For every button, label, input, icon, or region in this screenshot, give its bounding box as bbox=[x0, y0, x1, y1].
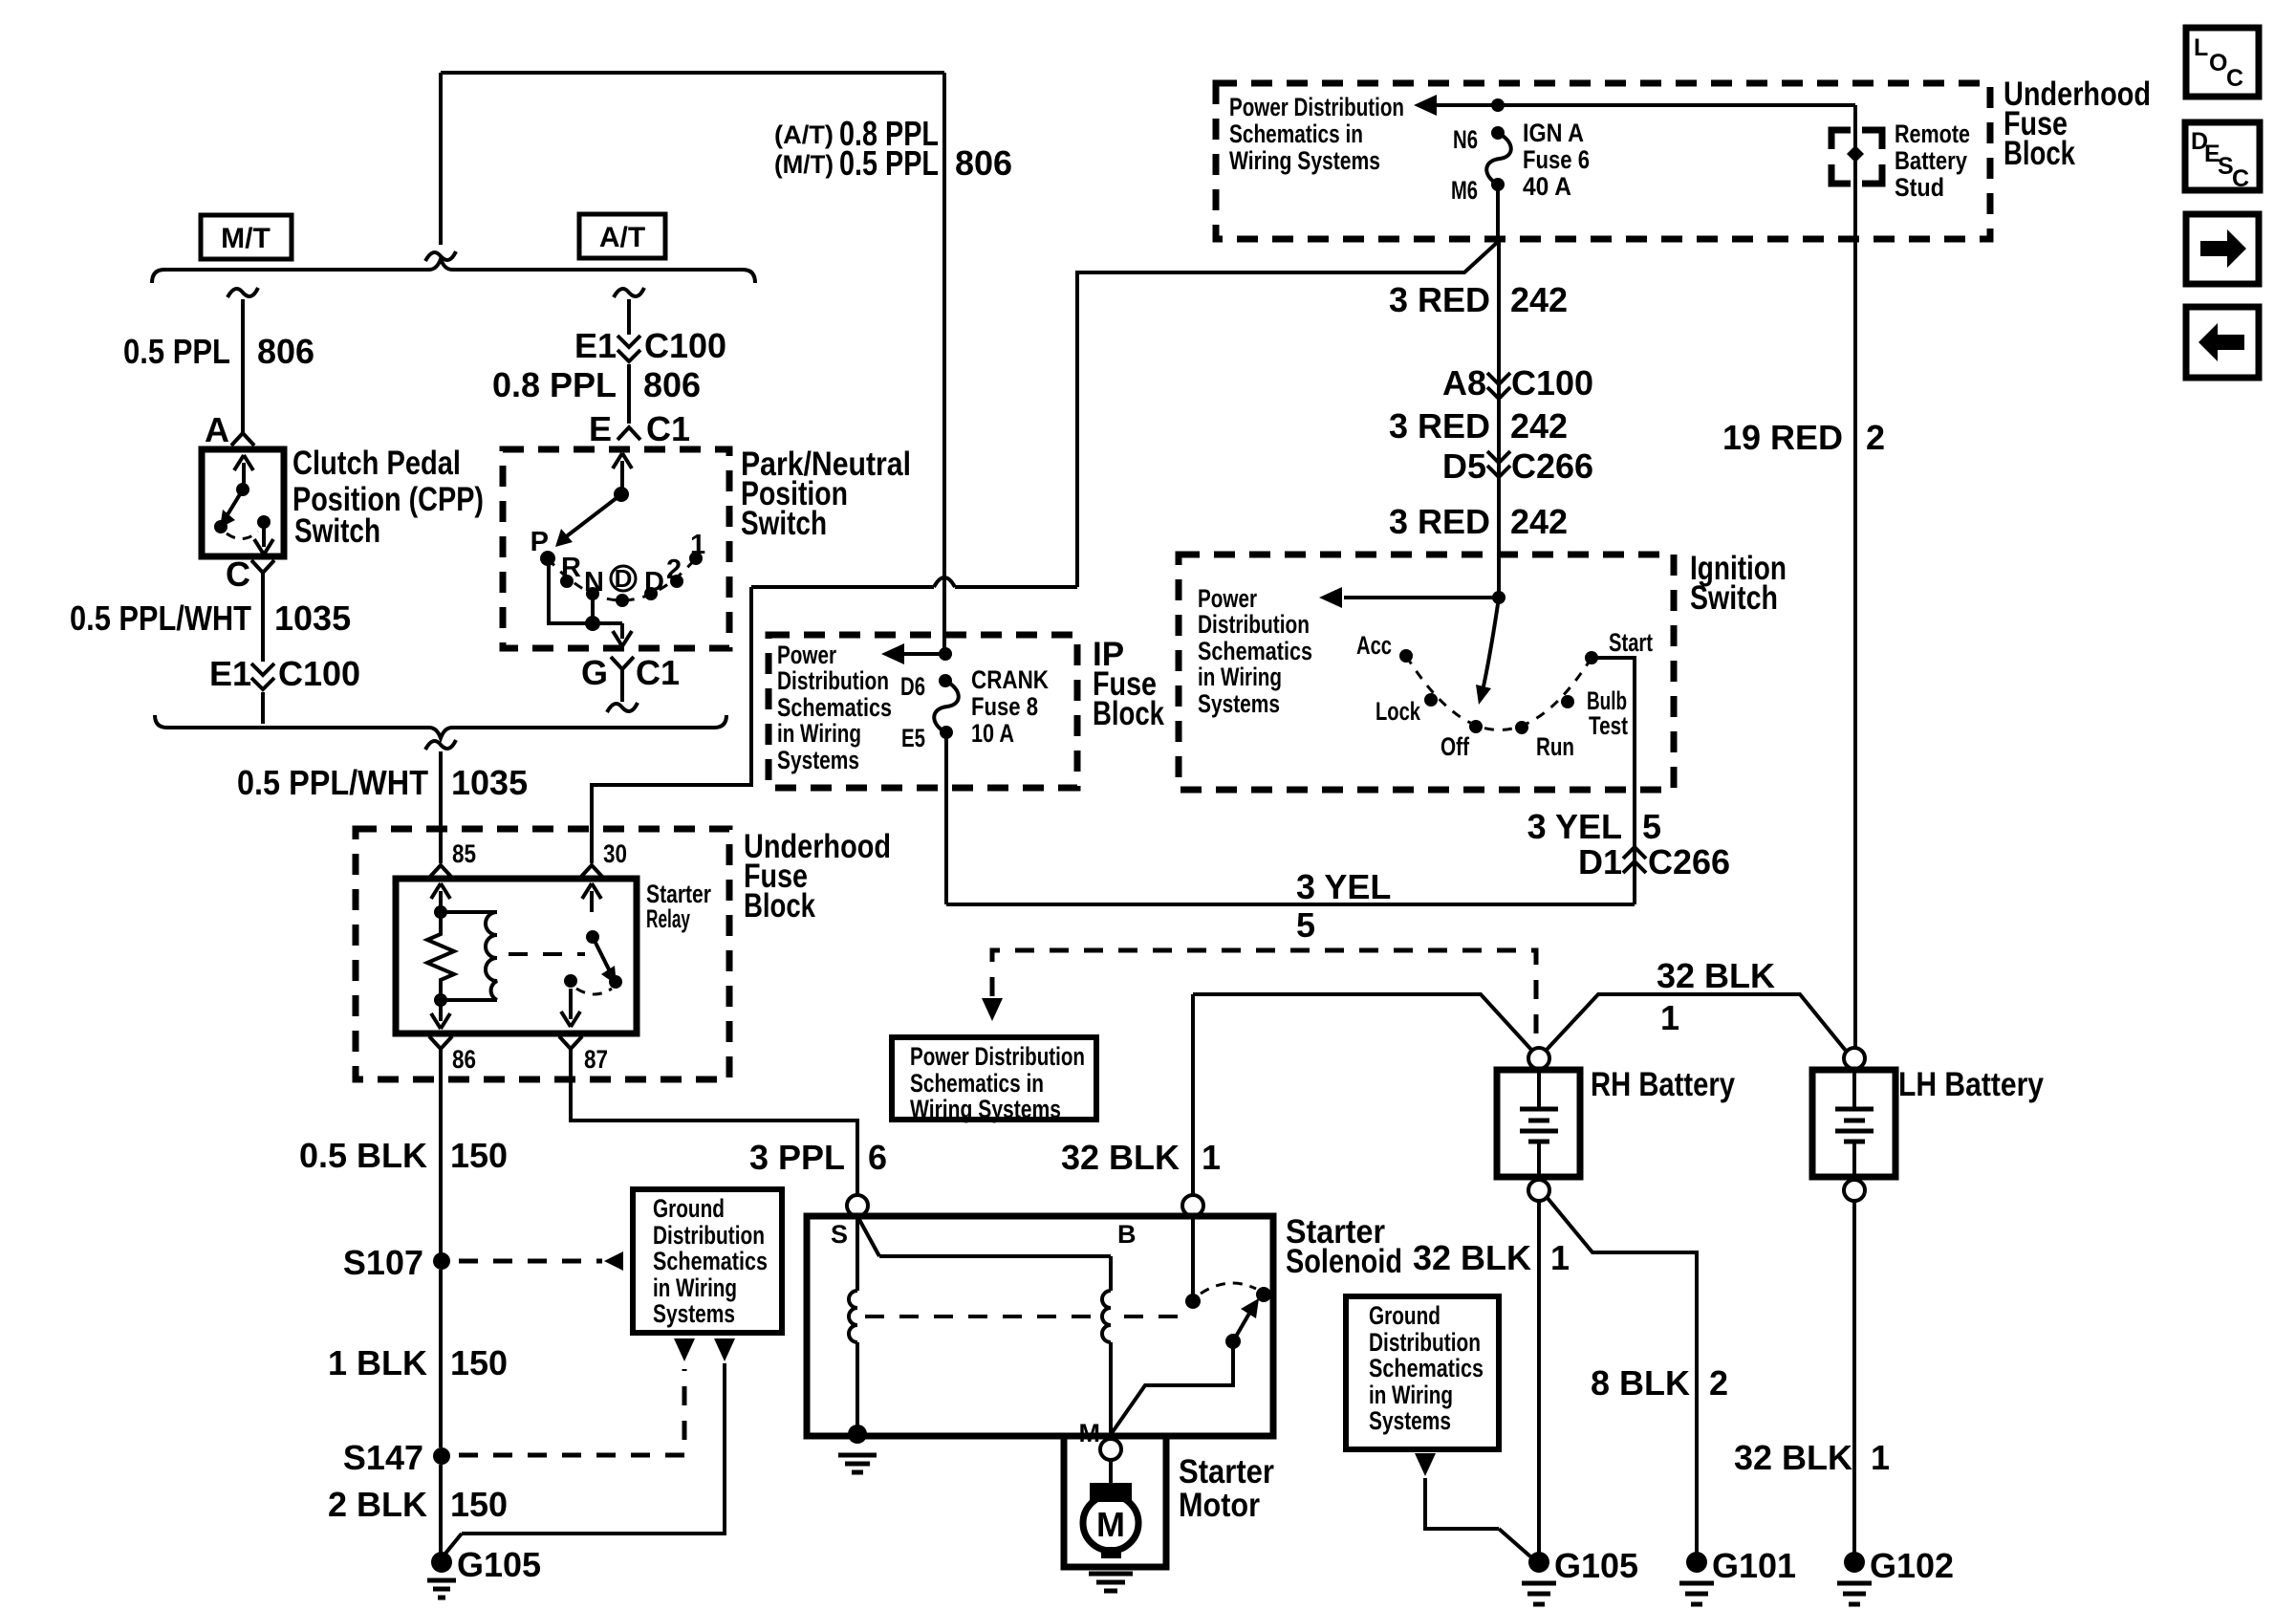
wire hop over 806 bbox=[934, 577, 955, 587]
PNP input arrow up bbox=[620, 461, 624, 488]
svg-text:1: 1 bbox=[1871, 1438, 1890, 1477]
LH battery - terminal bbox=[1844, 1180, 1865, 1201]
svg-text:3 RED: 3 RED bbox=[1389, 280, 1490, 319]
svg-text:Clutch Pedal: Clutch Pedal bbox=[292, 445, 461, 482]
LH battery symbol bbox=[1852, 1070, 1856, 1109]
svg-text:Battery: Battery bbox=[1895, 146, 1967, 175]
svg-text:806: 806 bbox=[955, 143, 1012, 183]
svg-text:242: 242 bbox=[1510, 280, 1568, 319]
svg-text:N: N bbox=[584, 567, 604, 598]
PNP positions arc bbox=[548, 558, 696, 600]
CPP switch travel arc bbox=[227, 532, 258, 539]
IP ref arrow left bbox=[899, 652, 945, 656]
svg-text:LH Battery: LH Battery bbox=[1898, 1066, 2044, 1103]
motor ground symbol bbox=[1089, 1572, 1133, 1577]
wire 3 RED to ignition bbox=[1497, 241, 1501, 598]
position dot Run bbox=[1515, 721, 1528, 734]
RH battery - terminal bbox=[1528, 1180, 1549, 1201]
svg-text:Ground: Ground bbox=[653, 1194, 725, 1223]
splice S107 bbox=[433, 1252, 450, 1270]
svg-text:C100: C100 bbox=[1511, 363, 1593, 402]
relay actuate dashed link bbox=[509, 952, 585, 956]
gdb2 wire to G105 bbox=[1425, 1478, 1499, 1529]
pin A connector bbox=[231, 433, 254, 446]
svg-text:in Wiring: in Wiring bbox=[653, 1273, 737, 1302]
svg-text:150: 150 bbox=[450, 1485, 508, 1524]
svg-text:G102: G102 bbox=[1870, 1546, 1954, 1585]
svg-text:0.5 PPL/WHT: 0.5 PPL/WHT bbox=[70, 598, 251, 638]
svg-text:in Wiring: in Wiring bbox=[1369, 1381, 1453, 1409]
PNP position dot N bbox=[586, 587, 599, 600]
CPP switch arm arrow bbox=[224, 490, 243, 521]
solenoid actuate dashed link bbox=[865, 1315, 1097, 1318]
solenoid contact dot right bbox=[1256, 1287, 1271, 1302]
RH battery + terminal bbox=[1528, 1048, 1549, 1069]
svg-text:Start: Start bbox=[1609, 628, 1653, 657]
PNP position dot P bbox=[540, 551, 555, 566]
solenoid B drop bbox=[1191, 1216, 1195, 1295]
underhood fuse block 1 box bbox=[1216, 83, 1990, 239]
relay coil bbox=[486, 912, 497, 1000]
svg-text:150: 150 bbox=[450, 1343, 508, 1382]
dashed ref wire S147 bbox=[459, 1369, 684, 1455]
svg-text:Lock: Lock bbox=[1375, 697, 1421, 726]
svg-text:Power: Power bbox=[1198, 584, 1257, 613]
svg-text:Run: Run bbox=[1536, 732, 1574, 761]
svg-text:87: 87 bbox=[584, 1045, 608, 1074]
svg-text:6: 6 bbox=[868, 1138, 887, 1177]
PNP selector arm bbox=[564, 494, 621, 538]
svg-text:Power Distribution: Power Distribution bbox=[910, 1042, 1085, 1071]
PNP wire N drop bbox=[591, 599, 595, 623]
RH battery symbol bbox=[1537, 1070, 1541, 1109]
svg-text:Block: Block bbox=[744, 887, 815, 925]
svg-text:0.5 PPL: 0.5 PPL bbox=[123, 332, 230, 371]
svg-text:2: 2 bbox=[1709, 1363, 1728, 1403]
svg-text:806: 806 bbox=[257, 332, 314, 371]
svg-text:10 A: 10 A bbox=[971, 719, 1014, 748]
svg-text:G: G bbox=[581, 653, 608, 692]
wire crank feed horizontal bbox=[751, 585, 934, 589]
svg-text:85: 85 bbox=[452, 839, 476, 868]
svg-text:Starter: Starter bbox=[1179, 1453, 1274, 1490]
svg-text:2: 2 bbox=[1866, 418, 1885, 457]
dashed ref wire battery bbox=[992, 950, 1536, 1046]
svg-text:B: B bbox=[1117, 1220, 1137, 1249]
clutch pedal position switch box bbox=[202, 449, 284, 556]
position dot Lock bbox=[1424, 693, 1438, 707]
svg-text:Relay: Relay bbox=[646, 904, 690, 933]
LH battery + terminal bbox=[1844, 1048, 1865, 1069]
gdb1 arrow down left bbox=[674, 1338, 695, 1361]
svg-text:Ground: Ground bbox=[1369, 1301, 1440, 1330]
solenoid arm pivot dot bbox=[1225, 1334, 1241, 1349]
svg-text:S: S bbox=[831, 1220, 848, 1249]
svg-text:1035: 1035 bbox=[274, 598, 351, 638]
wire 0.5 PPL/WHT 1035 bbox=[261, 572, 265, 662]
CPP switch contact arrow up bbox=[242, 463, 246, 488]
wire A/T to C100 bbox=[627, 299, 631, 335]
icon box arrow left bbox=[2186, 307, 2259, 378]
svg-text:(A/T): (A/T) bbox=[774, 120, 834, 149]
svg-text:242: 242 bbox=[1510, 406, 1568, 446]
wire 3 RED riser bbox=[1077, 272, 1401, 587]
svg-text:0.5 PPL: 0.5 PPL bbox=[839, 143, 939, 183]
svg-text:C: C bbox=[2226, 65, 2243, 92]
CPP switch pivot dot bbox=[236, 483, 249, 496]
svg-text:D1: D1 bbox=[1578, 842, 1622, 881]
relay switch input arrow bbox=[590, 891, 594, 912]
svg-text:Fuse 8: Fuse 8 bbox=[971, 692, 1038, 721]
svg-text:RH Battery: RH Battery bbox=[1591, 1066, 1735, 1103]
gdb1 arrow down right bbox=[714, 1338, 735, 1361]
relay switch travel arc bbox=[576, 989, 612, 994]
starter solenoid box bbox=[807, 1216, 1273, 1436]
ground G102 bbox=[1844, 1552, 1865, 1573]
svg-text:S107: S107 bbox=[343, 1243, 423, 1282]
svg-text:242: 242 bbox=[1510, 502, 1568, 541]
svg-text:E1: E1 bbox=[574, 326, 617, 365]
svg-text:Systems: Systems bbox=[653, 1299, 735, 1328]
svg-text:3 YEL: 3 YEL bbox=[1527, 807, 1622, 846]
svg-text:A8: A8 bbox=[1442, 363, 1486, 402]
svg-text:3 YEL: 3 YEL bbox=[1296, 867, 1391, 906]
svg-text:1 BLK: 1 BLK bbox=[328, 1343, 427, 1382]
icon box DESC bbox=[2185, 122, 2260, 190]
svg-text:Schematics in: Schematics in bbox=[910, 1069, 1044, 1098]
IP fuse block box bbox=[769, 635, 1077, 788]
svg-text:G105: G105 bbox=[1554, 1546, 1638, 1585]
PNP junction dot bbox=[585, 616, 600, 631]
svg-text:Off: Off bbox=[1440, 732, 1470, 761]
svg-text:Switch: Switch bbox=[1690, 579, 1778, 617]
svg-text:3 PPL: 3 PPL bbox=[749, 1138, 845, 1177]
pin 30 connector bbox=[580, 865, 603, 878]
wire crank feed left drop bbox=[592, 587, 751, 863]
svg-text:C100: C100 bbox=[644, 326, 726, 365]
ground distribution box 2 bbox=[1346, 1296, 1499, 1449]
relay switch arm bbox=[593, 937, 610, 971]
svg-text:0.8 PPL: 0.8 PPL bbox=[492, 365, 617, 404]
ignition switch box bbox=[1179, 555, 1674, 790]
svg-text:Schematics: Schematics bbox=[1198, 637, 1312, 665]
wire break symbol on M/T-A/T common bbox=[425, 251, 456, 261]
svg-text:Stud: Stud bbox=[1895, 173, 1944, 202]
svg-text:Systems: Systems bbox=[1369, 1406, 1451, 1435]
gdb2 arrow down bbox=[1415, 1453, 1436, 1476]
wire 2 BLK 150 bbox=[439, 1465, 443, 1553]
svg-text:32 BLK: 32 BLK bbox=[1061, 1138, 1180, 1177]
svg-text:Switch: Switch bbox=[294, 512, 380, 550]
svg-text:806: 806 bbox=[643, 365, 701, 404]
ground G105 left bbox=[431, 1552, 452, 1573]
svg-text:A: A bbox=[205, 410, 229, 449]
solenoid pull-in coil bbox=[1109, 1256, 1113, 1291]
solenoid ground dot bbox=[848, 1425, 867, 1444]
relay node dot top bbox=[434, 905, 447, 919]
svg-text:D: D bbox=[644, 567, 664, 598]
PNP position dot R bbox=[560, 575, 574, 588]
svg-text:Schematics: Schematics bbox=[1369, 1354, 1484, 1382]
CPP switch contact dot left bbox=[214, 520, 227, 533]
remote battery stud brackets bbox=[1831, 130, 1851, 149]
relay coil branch bottom bbox=[441, 998, 497, 1002]
svg-text:Test: Test bbox=[1589, 711, 1628, 740]
svg-text:0.5 BLK: 0.5 BLK bbox=[299, 1136, 427, 1175]
svg-text:Distribution: Distribution bbox=[1198, 610, 1310, 639]
solenoid pull-in feed bbox=[879, 1254, 1111, 1258]
wire LH battery to G102 bbox=[1852, 1201, 1856, 1553]
wire 3 RED diagonal bbox=[1401, 241, 1499, 272]
wire 32 BLK horizontal right bbox=[1546, 994, 1846, 1051]
svg-text:Schematics in: Schematics in bbox=[1229, 120, 1363, 148]
relay coil input arrow bbox=[439, 891, 443, 912]
wire 3 YEL horizontal bbox=[946, 903, 1635, 906]
svg-text:R: R bbox=[561, 553, 581, 583]
svg-text:in Wiring: in Wiring bbox=[1198, 663, 1282, 691]
ignition ref arrow left bbox=[1344, 596, 1499, 599]
relay switch contact dot top bbox=[586, 930, 599, 944]
svg-text:1: 1 bbox=[690, 530, 705, 560]
ufb1 junction dot bbox=[1491, 98, 1505, 112]
PNP wire P to out bbox=[549, 565, 622, 623]
svg-text:IGN A: IGN A bbox=[1523, 119, 1584, 147]
svg-text:Schematics: Schematics bbox=[777, 693, 892, 722]
IP junction dot bbox=[939, 647, 952, 661]
svg-text:P: P bbox=[531, 527, 549, 557]
svg-text:0.5 PPL/WHT: 0.5 PPL/WHT bbox=[237, 763, 428, 802]
brace alternatives bottom bbox=[155, 715, 726, 738]
svg-text:D: D bbox=[615, 564, 633, 593]
wire crank fuse output bbox=[944, 738, 948, 904]
svg-text:Systems: Systems bbox=[1198, 689, 1280, 718]
svg-text:C1: C1 bbox=[636, 653, 680, 692]
svg-text:5: 5 bbox=[1642, 807, 1661, 846]
svg-text:32 BLK: 32 BLK bbox=[1413, 1238, 1531, 1277]
brace alternatives top bbox=[152, 259, 755, 283]
solenoid arm linkage bbox=[1112, 1341, 1233, 1433]
pin C connector bbox=[251, 560, 274, 573]
solenoid S terminal bbox=[847, 1195, 868, 1216]
wire break M/T branch bbox=[227, 288, 258, 297]
wire break A/T branch bbox=[614, 288, 644, 297]
PNP output arrow down bbox=[620, 623, 624, 627]
wire 0.5 PPL/WHT 1035 to relay bbox=[439, 751, 443, 863]
ufb1 ref arrow left bbox=[1432, 103, 1498, 107]
svg-text:19 RED: 19 RED bbox=[1722, 418, 1843, 457]
svg-text:Wiring Systems: Wiring Systems bbox=[910, 1095, 1061, 1123]
svg-text:3 RED: 3 RED bbox=[1389, 406, 1490, 446]
fuse 8 top dot D6 bbox=[939, 674, 952, 687]
ground G105 right bbox=[1528, 1552, 1549, 1573]
wire 3 PPL 6 bbox=[571, 1049, 857, 1195]
pin 86 connector bbox=[429, 1036, 452, 1049]
svg-text:D5: D5 bbox=[1442, 446, 1486, 486]
wire 32 BLK solenoid B bbox=[1191, 994, 1195, 1195]
wire 0.5 BLK 150 bbox=[439, 1049, 443, 1256]
wire start output bbox=[1592, 658, 1635, 904]
svg-text:8 BLK: 8 BLK bbox=[1591, 1363, 1690, 1403]
wire 806 long vertical bbox=[942, 73, 946, 654]
connector box A/T bbox=[579, 214, 665, 258]
svg-text:E1: E1 bbox=[209, 654, 251, 693]
CRANK fuse element bbox=[934, 681, 959, 732]
svg-text:C: C bbox=[2232, 165, 2249, 192]
svg-text:Switch: Switch bbox=[741, 505, 827, 542]
svg-text:Distribution: Distribution bbox=[777, 666, 889, 695]
solenoid contact dot left bbox=[1185, 1294, 1201, 1309]
dashed ref wire S107 bbox=[459, 1259, 602, 1264]
svg-text:1: 1 bbox=[1660, 998, 1679, 1037]
wire 0.8 PPL 806 bbox=[627, 364, 631, 424]
wire RH battery to G105 bbox=[1537, 1201, 1541, 1553]
ignition junction dot bbox=[1492, 591, 1505, 604]
svg-text:Wiring Systems: Wiring Systems bbox=[1229, 146, 1380, 175]
pin 85 connector bbox=[429, 865, 452, 878]
underhood fuse block 2 box bbox=[356, 829, 729, 1079]
relay node dot bottom bbox=[434, 993, 447, 1007]
motor cap bbox=[1090, 1483, 1132, 1502]
svg-text:1035: 1035 bbox=[451, 763, 528, 802]
wire G stem bbox=[620, 668, 624, 702]
svg-text:D6: D6 bbox=[900, 672, 925, 701]
svg-text:86: 86 bbox=[452, 1045, 476, 1074]
PNP pivot dot bbox=[614, 487, 629, 502]
svg-text:3 RED: 3 RED bbox=[1389, 502, 1490, 541]
svg-text:Systems: Systems bbox=[777, 746, 859, 774]
svg-text:Block: Block bbox=[2004, 135, 2075, 172]
svg-text:30: 30 bbox=[603, 839, 627, 868]
CPP switch output arrow down bbox=[262, 528, 266, 547]
solenoid hold-in coil bbox=[856, 1216, 859, 1291]
ground G101 bbox=[1686, 1552, 1707, 1573]
svg-text:Acc: Acc bbox=[1356, 631, 1392, 660]
svg-text:N6: N6 bbox=[1453, 125, 1478, 154]
wire 8 BLK 2 bbox=[1547, 1197, 1697, 1553]
wire 806 vertical drop bbox=[439, 73, 443, 245]
svg-text:Block: Block bbox=[1093, 695, 1164, 732]
wire 1 BLK 150 bbox=[439, 1270, 443, 1447]
ground distribution box 1 bbox=[633, 1189, 782, 1333]
svg-text:Distribution: Distribution bbox=[653, 1221, 765, 1250]
splice S147 bbox=[433, 1447, 450, 1465]
wire 0.5 PPL 806 M/T branch bbox=[241, 299, 245, 432]
svg-text:(M/T): (M/T) bbox=[774, 150, 834, 179]
svg-text:M/T: M/T bbox=[221, 223, 271, 254]
fuse 6 top dot N6 bbox=[1491, 126, 1505, 140]
relay coil output arrow down bbox=[439, 1002, 443, 1021]
position dot Acc bbox=[1399, 649, 1413, 663]
position dot Bulb Test bbox=[1561, 695, 1574, 708]
icon box LOC bbox=[2186, 28, 2259, 97]
remote battery stud node bbox=[1847, 145, 1864, 163]
starter motor box bbox=[1064, 1436, 1166, 1567]
dashed ref arrowhead bbox=[982, 998, 1003, 1021]
svg-text:M6: M6 bbox=[1451, 176, 1478, 205]
wire break below brace bbox=[425, 740, 456, 750]
power distribution ref box bbox=[892, 1037, 1096, 1120]
svg-text:32 BLK: 32 BLK bbox=[1657, 956, 1775, 995]
ignition positions arc bbox=[1406, 656, 1592, 730]
svg-text:2: 2 bbox=[666, 555, 682, 585]
motor lead bbox=[1109, 1460, 1113, 1486]
RH battery box bbox=[1497, 1070, 1580, 1177]
svg-text:150: 150 bbox=[450, 1136, 508, 1175]
wire top horizontal 806 feed bbox=[441, 71, 944, 75]
svg-text:32 BLK: 32 BLK bbox=[1734, 1438, 1852, 1477]
svg-text:Schematics: Schematics bbox=[653, 1247, 768, 1275]
position dot Start bbox=[1585, 651, 1598, 664]
svg-text:O: O bbox=[2209, 50, 2227, 76]
starter relay box bbox=[396, 879, 637, 1033]
relay switch arm end dot bbox=[609, 975, 622, 989]
relay switch contact dot 87 bbox=[564, 974, 577, 988]
svg-text:C: C bbox=[226, 555, 250, 594]
svg-text:C266: C266 bbox=[1511, 446, 1593, 486]
wire 19 RED 2 bbox=[1853, 105, 1857, 1048]
wire into brace (M/T) bbox=[261, 692, 265, 724]
svg-text:CRANK: CRANK bbox=[971, 665, 1049, 694]
wire 3 RED fuse output bbox=[1496, 189, 1500, 241]
relay switch output arrow down bbox=[569, 989, 573, 1019]
icon box arrow right bbox=[2186, 214, 2259, 284]
PNP position dot D2 bbox=[644, 587, 658, 600]
wire fuse feed right bbox=[1498, 103, 1855, 107]
fuse 8 bottom dot E5 bbox=[940, 726, 953, 739]
gdb1 right solid wire bbox=[462, 1363, 725, 1534]
svg-text:E5: E5 bbox=[901, 724, 925, 752]
ignition key arrow bbox=[1484, 598, 1499, 686]
relay coil branch top bbox=[441, 910, 497, 914]
CPP switch contact dot right bbox=[257, 515, 271, 529]
IGN A fuse element bbox=[1486, 133, 1511, 185]
svg-text:Fuse 6: Fuse 6 bbox=[1523, 145, 1590, 174]
wire 32 BLK horizontal left bbox=[1193, 994, 1532, 1051]
svg-text:in Wiring: in Wiring bbox=[777, 719, 861, 748]
svg-text:C1: C1 bbox=[646, 409, 690, 448]
fuse 6 bottom dot M6 bbox=[1491, 178, 1505, 191]
solenoid M terminal bbox=[1100, 1439, 1121, 1460]
relay resistor bbox=[427, 912, 454, 1000]
solenoid ground symbol bbox=[838, 1453, 877, 1458]
svg-text:A/T: A/T bbox=[599, 222, 645, 253]
svg-text:2 BLK: 2 BLK bbox=[328, 1485, 427, 1524]
svg-text:E: E bbox=[589, 409, 612, 448]
wire break G stem bbox=[607, 703, 638, 712]
svg-text:1: 1 bbox=[1550, 1238, 1570, 1277]
svg-text:1: 1 bbox=[1202, 1138, 1221, 1177]
svg-text:C100: C100 bbox=[278, 654, 360, 693]
svg-text:C266: C266 bbox=[1648, 842, 1730, 881]
svg-text:Distribution: Distribution bbox=[1369, 1328, 1481, 1357]
LH battery box bbox=[1812, 1070, 1895, 1177]
park/neutral position switch box bbox=[503, 449, 729, 648]
svg-text:Remote: Remote bbox=[1895, 120, 1970, 148]
motor base tab bbox=[1101, 1547, 1121, 1558]
connector box M/T bbox=[201, 215, 292, 259]
svg-text:L: L bbox=[2194, 34, 2208, 61]
pin 87 connector bbox=[559, 1036, 582, 1049]
svg-text:Power Distribution: Power Distribution bbox=[1229, 93, 1404, 121]
solenoid B terminal bbox=[1182, 1195, 1203, 1216]
starter motor circle bbox=[1083, 1495, 1138, 1551]
svg-text:Solenoid: Solenoid bbox=[1286, 1243, 1402, 1280]
svg-text:5: 5 bbox=[1296, 905, 1315, 945]
solenoid S diagonal bbox=[857, 1216, 879, 1256]
PNP position dot 2 bbox=[670, 575, 683, 588]
PNP position dot 1 bbox=[689, 552, 703, 565]
solenoid contact arc bbox=[1201, 1283, 1256, 1294]
